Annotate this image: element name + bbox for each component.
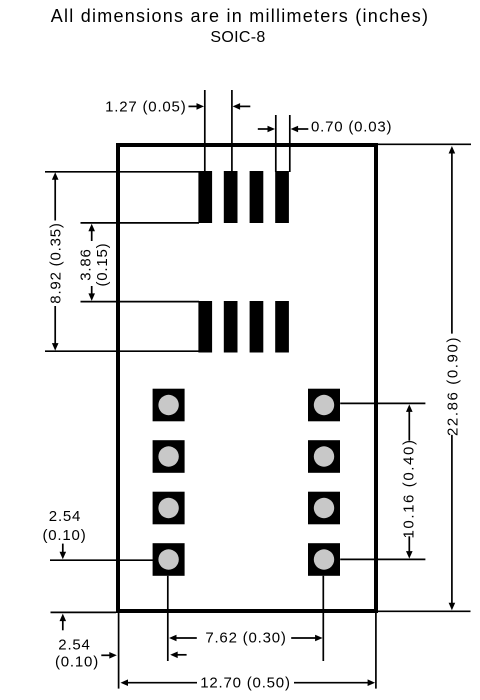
svg-text:3.86: 3.86 — [77, 248, 94, 280]
svg-text:10.16 (0.40): 10.16 (0.40) — [401, 438, 418, 538]
svg-text:2.54: 2.54 — [49, 508, 81, 525]
svg-text:(0.10): (0.10) — [55, 654, 99, 671]
svg-text:8.92 (0.35): 8.92 (0.35) — [48, 222, 65, 303]
svg-text:12.70 (0.50): 12.70 (0.50) — [200, 675, 291, 692]
svg-text:22.86 (0.90): 22.86 (0.90) — [445, 336, 462, 436]
svg-text:All dimensions are in millimet: All dimensions are in millimeters (inche… — [51, 6, 430, 26]
svg-text:1.27 (0.05): 1.27 (0.05) — [105, 98, 186, 115]
svg-text:0.70 (0.03): 0.70 (0.03) — [311, 119, 392, 136]
svg-text:7.62 (0.30): 7.62 (0.30) — [205, 630, 286, 647]
svg-text:(0.15): (0.15) — [94, 243, 111, 287]
svg-text:(0.10): (0.10) — [43, 527, 87, 544]
svg-text:2.54: 2.54 — [58, 637, 90, 654]
svg-text:SOIC-8: SOIC-8 — [210, 29, 265, 46]
